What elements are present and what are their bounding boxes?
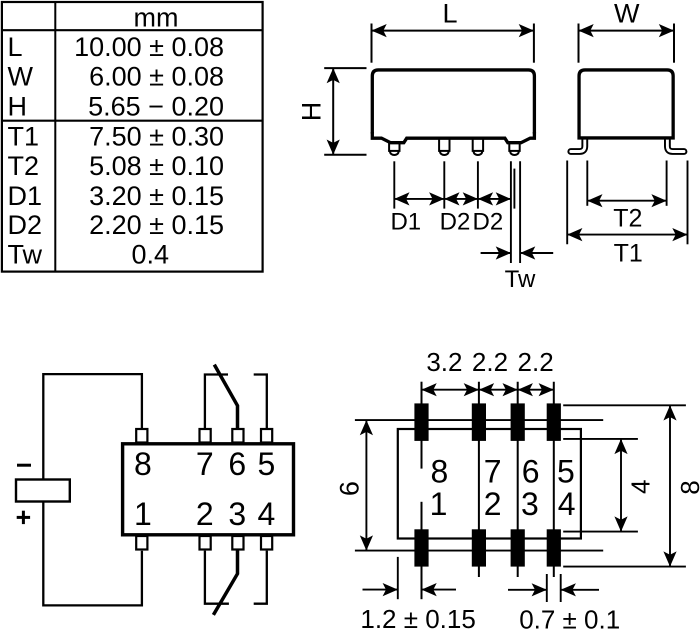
pad 4 bbox=[547, 529, 561, 566]
0.7 dim extension line left bbox=[546, 574, 548, 602]
footprint 6 dimension bbox=[355, 420, 603, 550]
pin 2 square bbox=[200, 536, 211, 550]
svg-text:8: 8 bbox=[134, 446, 152, 482]
wire pin8 to battery top bbox=[43, 374, 142, 479]
pad 7 bbox=[472, 403, 486, 441]
pin3 center extension line bbox=[477, 161, 479, 208]
svg-text:0.4: 0.4 bbox=[132, 240, 170, 270]
svg-text:T2: T2 bbox=[613, 205, 642, 233]
footprint body outline bbox=[398, 429, 581, 539]
Tw extension line right bbox=[519, 161, 521, 263]
4 dim arrow line bbox=[620, 439, 622, 532]
2.2 pitch arrow line second bbox=[518, 389, 554, 391]
svg-text:D2: D2 bbox=[8, 210, 43, 240]
table outer border bbox=[2, 2, 263, 272]
svg-text:4: 4 bbox=[625, 480, 655, 494]
svg-text:1: 1 bbox=[430, 486, 448, 522]
W arrow line bbox=[579, 30, 675, 32]
svg-text:mm: mm bbox=[134, 3, 179, 33]
1.2 arrow right bbox=[422, 589, 457, 591]
plus sign bbox=[17, 511, 30, 524]
pin 1 square bbox=[136, 536, 147, 550]
pin 5 square bbox=[261, 429, 272, 443]
pad column 7/2 center line bbox=[478, 382, 480, 577]
footprint pin numbers bbox=[430, 453, 576, 522]
svg-text:W: W bbox=[614, 0, 640, 28]
pin 2 (front view) bbox=[439, 138, 449, 151]
svg-text:3.20 ± 0.15: 3.20 ± 0.15 bbox=[89, 181, 224, 211]
front view H dimension bbox=[324, 68, 366, 155]
footprint 4 dimension bbox=[563, 439, 638, 532]
Tw arrow right bbox=[520, 252, 553, 254]
4 dim extension line bottom bbox=[563, 531, 638, 533]
svg-text:8: 8 bbox=[675, 480, 700, 494]
2.2 pitch arrow line first bbox=[479, 389, 518, 391]
D2 arrow line (pins 2-3) bbox=[444, 198, 478, 200]
L arrow line bbox=[372, 30, 534, 32]
svg-text:6: 6 bbox=[228, 446, 246, 482]
table column divider bbox=[54, 2, 56, 272]
svg-text:0.7 ± 0.1: 0.7 ± 0.1 bbox=[519, 604, 620, 633]
H arrow line bbox=[332, 68, 334, 155]
svg-text:7.50 ± 0.30: 7.50 ± 0.30 bbox=[89, 121, 224, 151]
pin 3 square bbox=[232, 536, 243, 550]
6 dim extension line bottom bbox=[355, 550, 603, 552]
pin 8 square bbox=[136, 429, 147, 443]
svg-text:8: 8 bbox=[431, 453, 449, 489]
battery/coil box bbox=[16, 480, 70, 502]
svg-text:2: 2 bbox=[484, 486, 502, 522]
footprint 8 dimension bbox=[563, 405, 686, 566]
svg-text:T2: T2 bbox=[8, 151, 40, 181]
H extension line top bbox=[324, 67, 366, 69]
table group separator bbox=[2, 120, 263, 122]
svg-text:6: 6 bbox=[522, 453, 540, 489]
svg-text:L: L bbox=[8, 32, 23, 62]
pin 3 (front view) bbox=[473, 138, 483, 151]
switch bottom: blade from pin 3 bbox=[213, 550, 237, 615]
T2 extension line left bbox=[586, 161, 588, 206]
4 dim extension line top bbox=[563, 438, 638, 440]
svg-text:4: 4 bbox=[558, 486, 576, 522]
switch top: blade to pin 6 bbox=[214, 365, 237, 429]
D2 arrow line (pins 3-4) bbox=[478, 198, 511, 200]
front view L dimension bbox=[372, 24, 534, 63]
labels D1 D2 D2 bbox=[390, 209, 503, 236]
L extension line left bbox=[371, 24, 373, 63]
pad 1 bbox=[414, 529, 428, 566]
schematic pin squares bbox=[136, 429, 272, 550]
pad 2 bbox=[472, 529, 486, 566]
footprint 1.2 dimension bbox=[363, 557, 457, 599]
pin2 center extension line bbox=[443, 161, 445, 208]
pad 3 bbox=[511, 529, 525, 566]
wire battery bottom to pin1 bbox=[43, 502, 142, 606]
pad column 5/4 center line bbox=[553, 382, 555, 577]
8 dim arrow line bbox=[669, 405, 671, 566]
pad column 6/3 center line bbox=[517, 382, 519, 577]
0.7 dim extension line right bbox=[560, 574, 562, 602]
schematic relay body bbox=[123, 444, 294, 535]
svg-text:3.2: 3.2 bbox=[426, 347, 462, 377]
Tw extension line left bbox=[510, 161, 512, 263]
svg-text:1.2 ± 0.15: 1.2 ± 0.15 bbox=[360, 604, 475, 633]
Tw arrow left bbox=[481, 252, 511, 254]
T1 dimension bbox=[567, 161, 687, 245]
D1 D2 D2 dimensions bbox=[394, 161, 514, 208]
W extension line left bbox=[578, 24, 580, 63]
8 dim extension line top bbox=[563, 404, 686, 406]
svg-text:T1: T1 bbox=[8, 121, 40, 151]
svg-text:5: 5 bbox=[258, 446, 276, 482]
svg-text:7: 7 bbox=[484, 453, 502, 489]
svg-text:6: 6 bbox=[335, 481, 365, 496]
minus sign bbox=[17, 464, 31, 467]
front view pins bbox=[389, 138, 520, 155]
1.2 dim extension line bbox=[397, 557, 399, 599]
svg-text:D1: D1 bbox=[8, 181, 43, 211]
switch top: wire from pin 7 bbox=[205, 375, 228, 429]
pin4 center extension line bbox=[513, 169, 515, 209]
1.2 arrow left bbox=[363, 589, 398, 591]
Tw dimension bbox=[481, 161, 554, 263]
svg-text:L: L bbox=[442, 0, 457, 28]
svg-text:D1: D1 bbox=[390, 209, 421, 236]
footprint pads top row bbox=[414, 403, 561, 566]
0.7 arrow right bbox=[561, 589, 599, 591]
pad 8 bbox=[414, 403, 428, 441]
svg-text:W: W bbox=[8, 62, 34, 92]
8 dim extension line bottom bbox=[563, 566, 686, 568]
side view W dimension bbox=[579, 24, 675, 63]
svg-text:2.2: 2.2 bbox=[472, 347, 508, 377]
footprint 0.7 dimension bbox=[508, 574, 599, 602]
side view right lead bbox=[667, 138, 684, 152]
footprint pad center lines bbox=[422, 382, 554, 600]
svg-text:D2: D2 bbox=[473, 209, 504, 236]
svg-text:T1: T1 bbox=[614, 239, 643, 267]
relay body side view bbox=[579, 70, 673, 138]
0.7 arrow left bbox=[508, 589, 547, 591]
relay body front view bbox=[372, 70, 534, 143]
T2 dimension bbox=[587, 161, 666, 206]
pin1 center extension line bbox=[393, 161, 395, 208]
dimensions table bbox=[2, 2, 263, 272]
T1 arrow line bbox=[567, 234, 687, 236]
svg-text:10.00 ± 0.08: 10.00 ± 0.08 bbox=[74, 32, 224, 62]
table header separator bbox=[2, 29, 263, 31]
pad 6 bbox=[511, 403, 525, 441]
svg-text:D2: D2 bbox=[440, 209, 471, 236]
6 dim extension line top bbox=[355, 419, 603, 421]
table text bbox=[8, 3, 225, 270]
pad column 8/1 center line upper bbox=[421, 382, 423, 469]
pad 5 bbox=[547, 403, 561, 441]
pin 6 square bbox=[232, 429, 243, 443]
svg-text:6.00 ± 0.08: 6.00 ± 0.08 bbox=[89, 62, 224, 92]
svg-text:2.2: 2.2 bbox=[518, 347, 554, 377]
T2 extension line right bbox=[666, 161, 668, 206]
svg-text:5.08 ± 0.10: 5.08 ± 0.10 bbox=[89, 151, 224, 181]
T2 arrow line bbox=[587, 200, 666, 202]
switch bottom: wire from pin 4 bbox=[254, 551, 267, 604]
L extension line right bbox=[533, 24, 535, 63]
svg-text:4: 4 bbox=[258, 496, 276, 532]
pin 4 square bbox=[261, 536, 272, 550]
footprint pitch dimensions 3.2 2.2 2.2 bbox=[422, 389, 554, 391]
svg-text:3: 3 bbox=[228, 496, 246, 532]
svg-text:5.65 − 0.20: 5.65 − 0.20 bbox=[88, 91, 224, 121]
H extension line bottom bbox=[324, 154, 366, 156]
svg-text:H: H bbox=[296, 102, 326, 122]
pin 7 square bbox=[200, 429, 211, 443]
switch top: wire from pin 5 bbox=[254, 375, 267, 429]
switch bottom: wire from pin 2 bbox=[205, 551, 229, 604]
svg-text:7: 7 bbox=[196, 446, 214, 482]
T1 extension line left bbox=[566, 161, 568, 245]
schematic coil wiring bbox=[43, 374, 142, 605]
svg-text:3: 3 bbox=[521, 486, 539, 522]
W extension line right bbox=[673, 24, 675, 63]
6 dim arrow line bbox=[365, 420, 367, 550]
schematic pin numbers bbox=[134, 446, 275, 532]
pad column 8/1 center line lower bbox=[421, 502, 423, 599]
3.2 pitch arrow line bbox=[422, 389, 479, 391]
side view left lead bbox=[571, 138, 585, 152]
svg-text:5: 5 bbox=[557, 453, 575, 489]
svg-text:2: 2 bbox=[196, 496, 214, 532]
svg-text:2.20 ± 0.15: 2.20 ± 0.15 bbox=[89, 210, 224, 240]
T1 extension line right bbox=[687, 161, 689, 245]
svg-text:Tw: Tw bbox=[8, 240, 43, 270]
pin 4 (front view) bbox=[509, 143, 519, 151]
pin 1 (front view) bbox=[389, 143, 399, 151]
svg-text:Tw: Tw bbox=[505, 266, 536, 293]
svg-text:H: H bbox=[8, 91, 28, 121]
D1 arrow line bbox=[394, 198, 444, 200]
svg-text:1: 1 bbox=[134, 496, 152, 532]
